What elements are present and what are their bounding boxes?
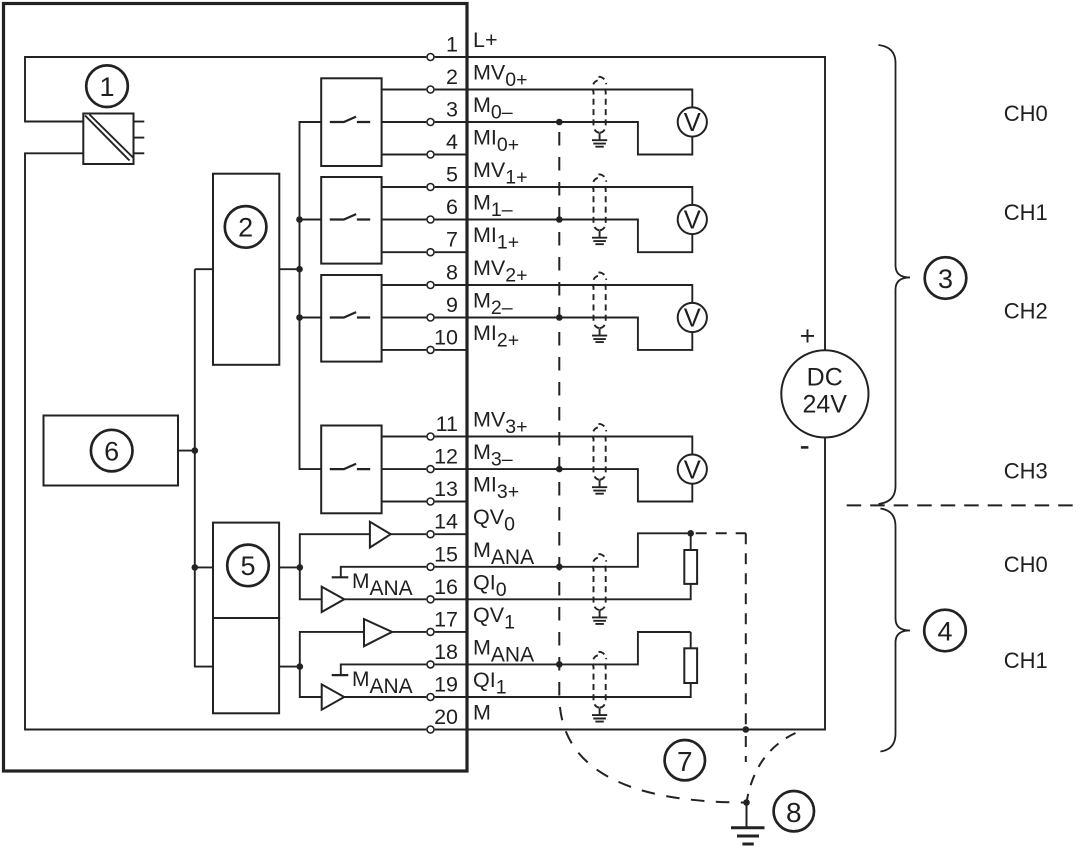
- svg-text:7: 7: [677, 746, 693, 777]
- terminal circles 1-20: [427, 54, 434, 734]
- wire L+ internal: terminal 1 to left rail to PSU pin 1: [25, 57, 426, 122]
- block 5 box upper: [213, 523, 279, 618]
- svg-text:6: 6: [104, 436, 119, 466]
- wire QV0 stub: [435, 533, 466, 535]
- op-amp QI0: [322, 587, 345, 612]
- brace 3: [879, 45, 911, 504]
- wire block2 left to bus B: [195, 268, 213, 270]
- wire QI1 external to load bottom: [435, 683, 691, 697]
- svg-text:5: 5: [446, 163, 458, 187]
- svg-text:17: 17: [434, 607, 458, 631]
- node shield bus / M0-: [556, 119, 563, 126]
- node bus A / switch CH2: [296, 314, 303, 321]
- wire block5 upper out to bus C: [279, 566, 300, 568]
- wire switch CH2 out to terminal 10: [382, 349, 427, 351]
- shield symbols: [592, 77, 607, 722]
- bus D vertical for output channel 1: [300, 632, 364, 697]
- wire M1- external jumper to voltmeter bottom: [435, 220, 693, 253]
- svg-text:13: 13: [434, 477, 458, 501]
- wire MANA0 external up to load top: [435, 533, 691, 567]
- op-amp QI1: [322, 684, 345, 709]
- cable shield output CH1: [592, 652, 607, 722]
- cable shield CH3: [592, 424, 607, 494]
- block 5 box lower: [213, 618, 279, 713]
- svg-text:7: 7: [446, 228, 458, 252]
- wire switch CH2 out to terminal 8: [382, 284, 427, 286]
- voltmeter V1: [678, 205, 707, 234]
- wire MI2+ stub: [435, 349, 466, 351]
- block 6 box: [44, 416, 179, 486]
- svg-text:8: 8: [786, 797, 802, 828]
- node shield bus / MANA0: [556, 564, 563, 571]
- svg-text:3: 3: [446, 98, 458, 122]
- svg-text:V: V: [684, 305, 701, 333]
- svg-text:16: 16: [434, 575, 458, 599]
- wire QI0 external to load bottom: [435, 584, 691, 599]
- wire M internal: PSU pin 2 to left rail down to terminal 20: [25, 153, 426, 729]
- svg-text:14: 14: [434, 510, 458, 534]
- terminal numbers: [434, 33, 458, 730]
- callout circle 2: [225, 206, 267, 248]
- wire QV0 out to terminal 14: [391, 533, 427, 535]
- svg-text:CH2: CH2: [1004, 299, 1048, 324]
- svg-text:2: 2: [446, 65, 458, 89]
- svg-text:+: +: [800, 321, 816, 351]
- svg-text:CH1: CH1: [1004, 648, 1048, 673]
- wire switch CH1 out to terminal 7: [382, 251, 427, 253]
- svg-text:8: 8: [446, 261, 458, 285]
- svg-text:15: 15: [434, 542, 458, 566]
- wire terminal 18 MANA stub: [341, 664, 427, 675]
- wire switch CH1 out to terminal 5: [382, 186, 427, 188]
- wire switch CH2 out to terminal 9: [382, 317, 427, 319]
- svg-text:DC: DC: [807, 364, 843, 392]
- wire MI3+ stub: [435, 501, 466, 503]
- svg-text:20: 20: [434, 705, 458, 729]
- wire MV3+ external to voltmeter top: [435, 437, 693, 455]
- cable shield CH1: [592, 174, 607, 244]
- equipotential dashed vertical to M wire: [745, 533, 747, 729]
- switch box CH3: [321, 426, 381, 514]
- wire MI0+ stub: [435, 154, 466, 156]
- svg-text:24V: 24V: [802, 391, 847, 419]
- wire bus B to block5 upper input: [195, 566, 213, 568]
- wire bus A to switch box 3: [300, 317, 322, 319]
- ground symbol: [731, 803, 765, 845]
- svg-text:V: V: [684, 207, 701, 235]
- svg-text:1: 1: [446, 33, 458, 57]
- bus C vertical for output channel 0: [300, 534, 370, 599]
- svg-text:CH3: CH3: [1004, 459, 1048, 484]
- wire QV1 out to terminal 17: [392, 631, 426, 633]
- switch symbol CH0: [330, 117, 370, 122]
- wire switch CH0 out to terminal 4: [382, 154, 427, 156]
- bus B vertical (x=194.8) down to block5 lower input: [195, 269, 213, 666]
- callout circle 4: [924, 610, 966, 652]
- svg-text:CH1: CH1: [1004, 200, 1048, 225]
- callout circle 5: [227, 545, 269, 587]
- switch symbol CH1: [330, 214, 370, 219]
- wire switch CH3 out to terminal 13: [382, 501, 427, 503]
- wire switch CH3 out to terminal 12: [382, 468, 427, 470]
- cable shield CH0: [592, 77, 607, 147]
- power supply right pin 1: [134, 121, 145, 123]
- wire block5 lower out to bus D: [279, 666, 300, 668]
- terminal net labels: [473, 28, 534, 725]
- op-amp QV0: [370, 522, 391, 548]
- power supply right pin 2: [134, 137, 145, 139]
- cable shield output CH0: [592, 554, 607, 624]
- node shield bus / MANA1: [556, 661, 563, 668]
- svg-text:L+: L+: [473, 28, 498, 52]
- bus A vertical (x=299.5) switch control bus: [300, 122, 322, 469]
- svg-text:CH0: CH0: [1004, 552, 1048, 577]
- svg-text:CH0: CH0: [1004, 101, 1048, 126]
- callout circle 6: [91, 430, 133, 472]
- switch symbol CH2: [330, 312, 370, 317]
- callout circle 3: [925, 257, 967, 299]
- svg-text:M: M: [473, 701, 491, 725]
- wire QV1 stub: [435, 631, 466, 633]
- wire MV0+ external to voltmeter top: [435, 90, 693, 108]
- node load CH0 top: [687, 530, 694, 537]
- callout circle 8: [774, 791, 814, 831]
- svg-text:10: 10: [434, 325, 458, 349]
- svg-text:V: V: [684, 109, 701, 137]
- dashed link load CH0 to equipotential line: [691, 532, 746, 534]
- wire M2- external jumper to voltmeter bottom: [435, 318, 693, 350]
- svg-text:3: 3: [938, 264, 953, 294]
- svg-text:18: 18: [434, 640, 458, 664]
- svg-text:6: 6: [446, 195, 458, 219]
- MANA reference bar QI1: [332, 674, 349, 676]
- MANA reference bar QI0: [332, 576, 349, 578]
- wire switch CH0 out to terminal 3: [382, 121, 427, 123]
- wire MV1+ external to voltmeter top: [435, 187, 693, 205]
- power supply diagonal 2: [90, 115, 134, 158]
- wire load CH1 top stub: [690, 632, 692, 648]
- node shield bus / M2-: [556, 314, 563, 321]
- wire MANA1 external up to load top: [435, 632, 691, 664]
- wire load CH0 top stub: [690, 533, 692, 550]
- wire M0- external jumper to voltmeter bottom: [435, 122, 693, 155]
- node bus A / block 2: [296, 266, 303, 273]
- wire QI1 out to terminal 19: [344, 696, 426, 698]
- cable shield CH2: [592, 272, 607, 342]
- module outline: [4, 4, 468, 772]
- callout circle 1: [86, 65, 966, 831]
- wire M3- external jumper to voltmeter bottom: [435, 469, 693, 501]
- DC source label: [802, 364, 847, 419]
- node bus A / switch CH1: [296, 216, 303, 223]
- DC minus sign: [801, 446, 809, 449]
- svg-text:V: V: [684, 456, 701, 484]
- node ground: [743, 799, 750, 806]
- wire block2 right to bus A: [279, 268, 299, 270]
- power supply right pin 3: [134, 152, 145, 154]
- channel labels: [1004, 101, 1048, 673]
- voltmeter V0: [678, 107, 869, 483]
- wire terminal 15 MANA stub: [341, 567, 427, 578]
- wire bus A to switch box 2: [300, 219, 322, 221]
- voltmeter letters: [684, 109, 701, 484]
- dashed curve DC minus area to ground: [747, 733, 796, 803]
- switch box CH0: [321, 78, 381, 166]
- wire L+ external: terminal 1 to DC source plus: [435, 57, 825, 350]
- svg-text:5: 5: [240, 551, 255, 581]
- svg-text:9: 9: [446, 293, 458, 317]
- power supply diagonal 1: [85, 116, 130, 161]
- svg-text:2: 2: [238, 213, 253, 243]
- wire QI0 out to terminal 16: [344, 598, 426, 600]
- resistor load CH0: [684, 550, 697, 584]
- node equipotential / M wire: [743, 726, 750, 733]
- voltmeter V3: [678, 455, 707, 484]
- power supply U1 box: [83, 114, 133, 165]
- shield bus dashed line to ground: [559, 122, 746, 803]
- node bus B / block 6: [192, 447, 199, 454]
- wire M external: terminal 20 to DC source minus: [435, 438, 825, 730]
- op-amp QV1: [364, 619, 392, 646]
- switch box CH2: [321, 275, 381, 362]
- callout digits: [99, 72, 953, 828]
- brace 4: [880, 509, 910, 752]
- wire switch CH0 out to terminal 2: [382, 89, 427, 91]
- resistor load CH1: [684, 648, 697, 683]
- svg-text:12: 12: [434, 445, 458, 469]
- svg-text:19: 19: [434, 673, 458, 697]
- dashed stub below M wire junction: [745, 733, 747, 762]
- DC 24V source circle: [781, 350, 868, 437]
- svg-text:4: 4: [937, 616, 952, 646]
- node bus D / block 5 lower out: [297, 663, 304, 670]
- wire switch CH1 out to terminal 6: [382, 219, 427, 221]
- node bus B / block 5 upper: [192, 564, 199, 571]
- node shield bus / M1-: [556, 216, 563, 223]
- switch symbol CH3: [330, 464, 370, 469]
- callout circle 7: [665, 740, 705, 780]
- wire switch CH3 out to terminal 11: [382, 436, 427, 438]
- node shield bus / M3-: [556, 466, 563, 473]
- switch box CH1: [321, 177, 381, 264]
- block 2 box (multiplexer): [213, 174, 279, 365]
- voltmeter V2: [678, 303, 707, 332]
- node bus C / block 5 upper out: [297, 564, 304, 571]
- dashed separator line between brace 3 and 4: [847, 504, 1080, 506]
- wire MI1+ stub: [435, 251, 466, 253]
- wire block6 output to bus B: [178, 450, 195, 452]
- svg-text:4: 4: [446, 130, 458, 154]
- svg-text:11: 11: [436, 412, 458, 436]
- wire MV2+ external to voltmeter top: [435, 285, 693, 303]
- svg-text:1: 1: [99, 72, 114, 102]
